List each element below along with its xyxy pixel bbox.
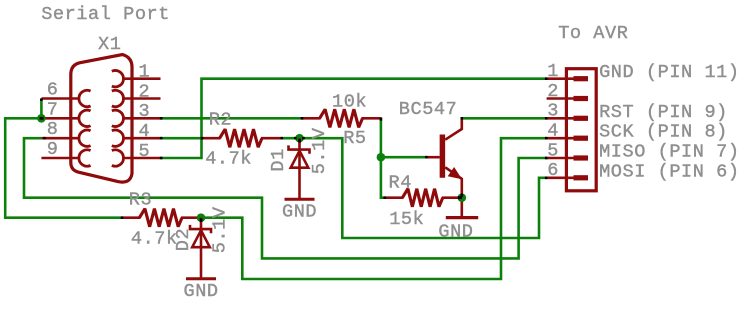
svg-text:8: 8 [47,119,59,140]
svg-text:3: 3 [139,101,151,122]
svg-text:SCK (PIN 8): SCK (PIN 8) [599,122,728,143]
svg-text:2: 2 [139,81,151,102]
svg-text:D2: D2 [173,228,194,251]
svg-text:MOSI (PIN 6): MOSI (PIN 6) [599,161,740,182]
svg-text:15k: 15k [389,209,424,230]
svg-text:R4: R4 [389,173,412,194]
svg-text:10k: 10k [332,92,367,113]
svg-text:3: 3 [547,101,559,122]
svg-text:4: 4 [139,121,151,142]
svg-text:4.7k: 4.7k [205,149,252,170]
svg-text:X1: X1 [98,34,121,55]
svg-text:1: 1 [139,62,151,83]
svg-text:R2: R2 [209,110,232,131]
svg-text:1: 1 [547,61,559,82]
svg-text:5.1V: 5.1V [210,206,231,253]
svg-text:9: 9 [47,139,59,160]
svg-text:2: 2 [547,81,559,102]
svg-text:RST (PIN 9): RST (PIN 9) [599,102,728,123]
svg-text:BC547: BC547 [399,99,458,120]
svg-text:6: 6 [47,80,59,101]
svg-text:5: 5 [139,141,151,162]
svg-text:Serial Port: Serial Port [41,4,170,25]
svg-text:MISO (PIN 7): MISO (PIN 7) [599,142,740,163]
svg-text:4.7k: 4.7k [131,229,178,250]
svg-text:6: 6 [547,160,559,181]
svg-text:GND: GND [438,222,473,243]
svg-text:5: 5 [547,140,559,161]
svg-text:GND (PIN 11): GND (PIN 11) [599,62,740,83]
svg-text:7: 7 [47,99,59,120]
svg-text:R3: R3 [129,190,152,211]
svg-text:GND: GND [282,202,317,223]
svg-text:GND: GND [184,281,219,302]
svg-text:4: 4 [547,121,559,142]
svg-text:R5: R5 [343,128,366,149]
svg-text:D1: D1 [268,148,289,171]
svg-text:5.1V: 5.1V [309,127,330,174]
svg-text:To AVR: To AVR [558,23,628,44]
